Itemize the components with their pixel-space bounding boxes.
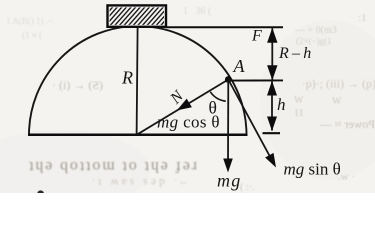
svg-text:( :·.: ( :·. xyxy=(240,182,254,193)
svg-text:W: W xyxy=(294,95,304,106)
svg-text::1: :1 xyxy=(358,12,367,24)
svg-text:mg: mg xyxy=(217,171,241,191)
force arrow mg sin θ xyxy=(228,80,271,159)
svg-text:R – h: R – h xyxy=(278,45,311,62)
base line xyxy=(28,134,248,137)
block on top of dome (hatched) xyxy=(95,5,184,27)
svg-text:(S) ← (i) ·: (S) ← (i) · xyxy=(52,78,103,92)
horizontal line at A level xyxy=(228,79,283,81)
svg-text:R: R xyxy=(121,68,133,88)
radius line from A to centre (N / mg cos θ line) xyxy=(137,80,229,135)
angle arc θ at A xyxy=(210,92,226,101)
svg-text:Power ≈ —: Power ≈ — xyxy=(319,117,375,131)
tick at bottom of h dimension xyxy=(263,132,281,134)
dimension arrow h (double headed) xyxy=(271,82,273,131)
hemisphere dome arc xyxy=(29,26,247,135)
point A dot xyxy=(225,76,232,83)
force arrow mg xyxy=(227,80,229,167)
svg-text:1 A(B() 1) .~: 1 A(B() 1) .~ xyxy=(6,16,53,26)
svg-text:— = 0(m3: — = 0(m3 xyxy=(294,25,337,36)
dark mark bottom-left corner xyxy=(37,190,44,197)
svg-text:θ: θ xyxy=(209,98,217,118)
svg-text:1 36 (: 1 36 ( xyxy=(183,6,212,17)
svg-text:h: h xyxy=(277,95,286,114)
svg-text:(q) ← (iii) ;·(q·: (q) ← (iii) ;·(q· xyxy=(302,77,375,91)
svg-text:11: 11 xyxy=(294,108,304,119)
arrowhead N (pointing toward centre) xyxy=(177,99,192,111)
radius line R (vertical) xyxy=(137,28,138,135)
svg-text:W: W xyxy=(332,96,342,107)
svg-text:A: A xyxy=(233,56,246,76)
svg-text:(1 ≡ (: (1 ≡ ( xyxy=(22,30,42,40)
top surface line (F level) xyxy=(166,26,284,28)
svg-text:F: F xyxy=(251,28,262,45)
svg-text:mg sin θ: mg sin θ xyxy=(284,160,341,179)
dimension arrow R-h (double headed) xyxy=(271,28,273,80)
